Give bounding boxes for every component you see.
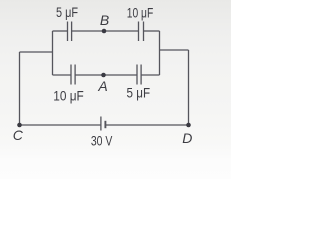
node D junction dot [186,123,191,128]
svg-text:D: D [182,130,192,146]
battery V1 long plate [100,117,102,131]
wire top branch left segment [53,30,68,32]
wire right outer vertical [188,50,190,125]
wire inner-left vertical [52,31,54,75]
capacitor C_5uF-top plates [68,22,72,42]
svg-text:A: A [97,78,107,94]
wire middle branch right segment [141,74,159,76]
svg-text:10 μF: 10 μF [53,88,84,104]
wire inner-right vertical [159,31,161,75]
svg-text:C: C [13,127,24,143]
paper background [0,0,231,179]
wire left stub [20,51,53,53]
wire left outer vertical [19,52,21,125]
svg-text:5 μF: 5 μF [127,84,151,100]
svg-text:5 μF: 5 μF [56,4,78,20]
capacitor C_10uF-mid plates [71,65,75,85]
wire bottom right (battery to D) [106,124,189,126]
node C junction dot [17,123,22,128]
wire top branch right segment [144,30,160,32]
wire top branch middle segment [72,30,139,32]
wire middle branch left segment [53,74,71,76]
wire middle branch center segment [75,74,137,76]
svg-text:10 μF: 10 μF [127,4,154,20]
battery V1 short plate [104,121,106,128]
node A junction dot [101,73,106,78]
capacitor C_5uF-mid plates [137,65,141,85]
svg-text:30 V: 30 V [91,133,113,149]
wire bottom left (C to battery) [20,124,101,126]
capacitor C_10uF-top plates [139,22,144,42]
wire right stub [160,49,189,51]
node B junction dot [102,29,107,34]
svg-text:B: B [100,12,109,28]
